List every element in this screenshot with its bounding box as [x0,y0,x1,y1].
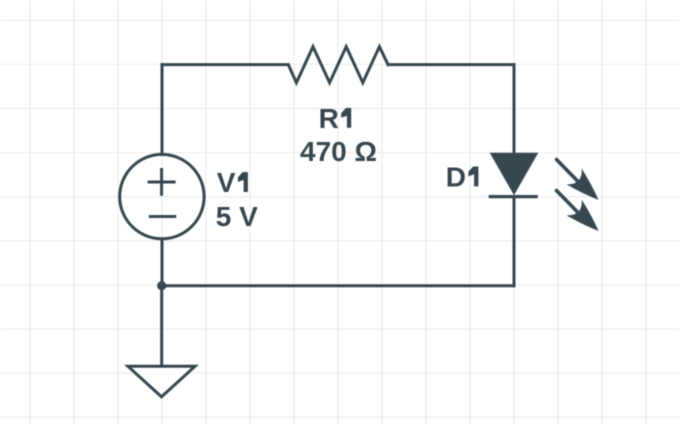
svg-text:D: D [446,161,466,192]
resistor R1 [288,47,388,83]
label V1 digit 1 [238,172,248,192]
LED D1 diode triangle [491,153,538,194]
LED light arrow 2 head [567,200,599,231]
V1 plus sign [148,168,176,196]
V1 minus sign [149,215,176,218]
LED D1 cathode bar [489,195,538,198]
wire left vertical from top rail to V1 [161,65,164,155]
LED light arrow 2 shaft [557,191,578,213]
svg-text:470 Ω: 470 Ω [300,136,377,167]
wire top rail right segment from R1 to LED branch [388,63,514,66]
wire V1 bottom to junction [161,239,164,286]
LED light arrow 1 head [567,169,599,200]
voltage source V1 circle [120,154,204,238]
node junction dot [157,281,166,290]
wire bottom rail from junction to LED branch [162,284,514,287]
label D1 digit 1 [468,167,478,187]
LED light arrow 1 shaft [557,160,578,182]
label R1 digit 1 [341,108,351,128]
svg-text:R: R [319,103,339,134]
wire ground stem [160,286,163,367]
wire right vertical from top rail to LED [513,65,516,154]
wire top rail left segment from V1 corner to R1 [162,63,288,66]
ground symbol [128,366,195,397]
wire LED cathode to bottom rail [513,197,516,286]
svg-text:5 V: 5 V [216,201,258,232]
svg-text:V: V [217,167,236,198]
